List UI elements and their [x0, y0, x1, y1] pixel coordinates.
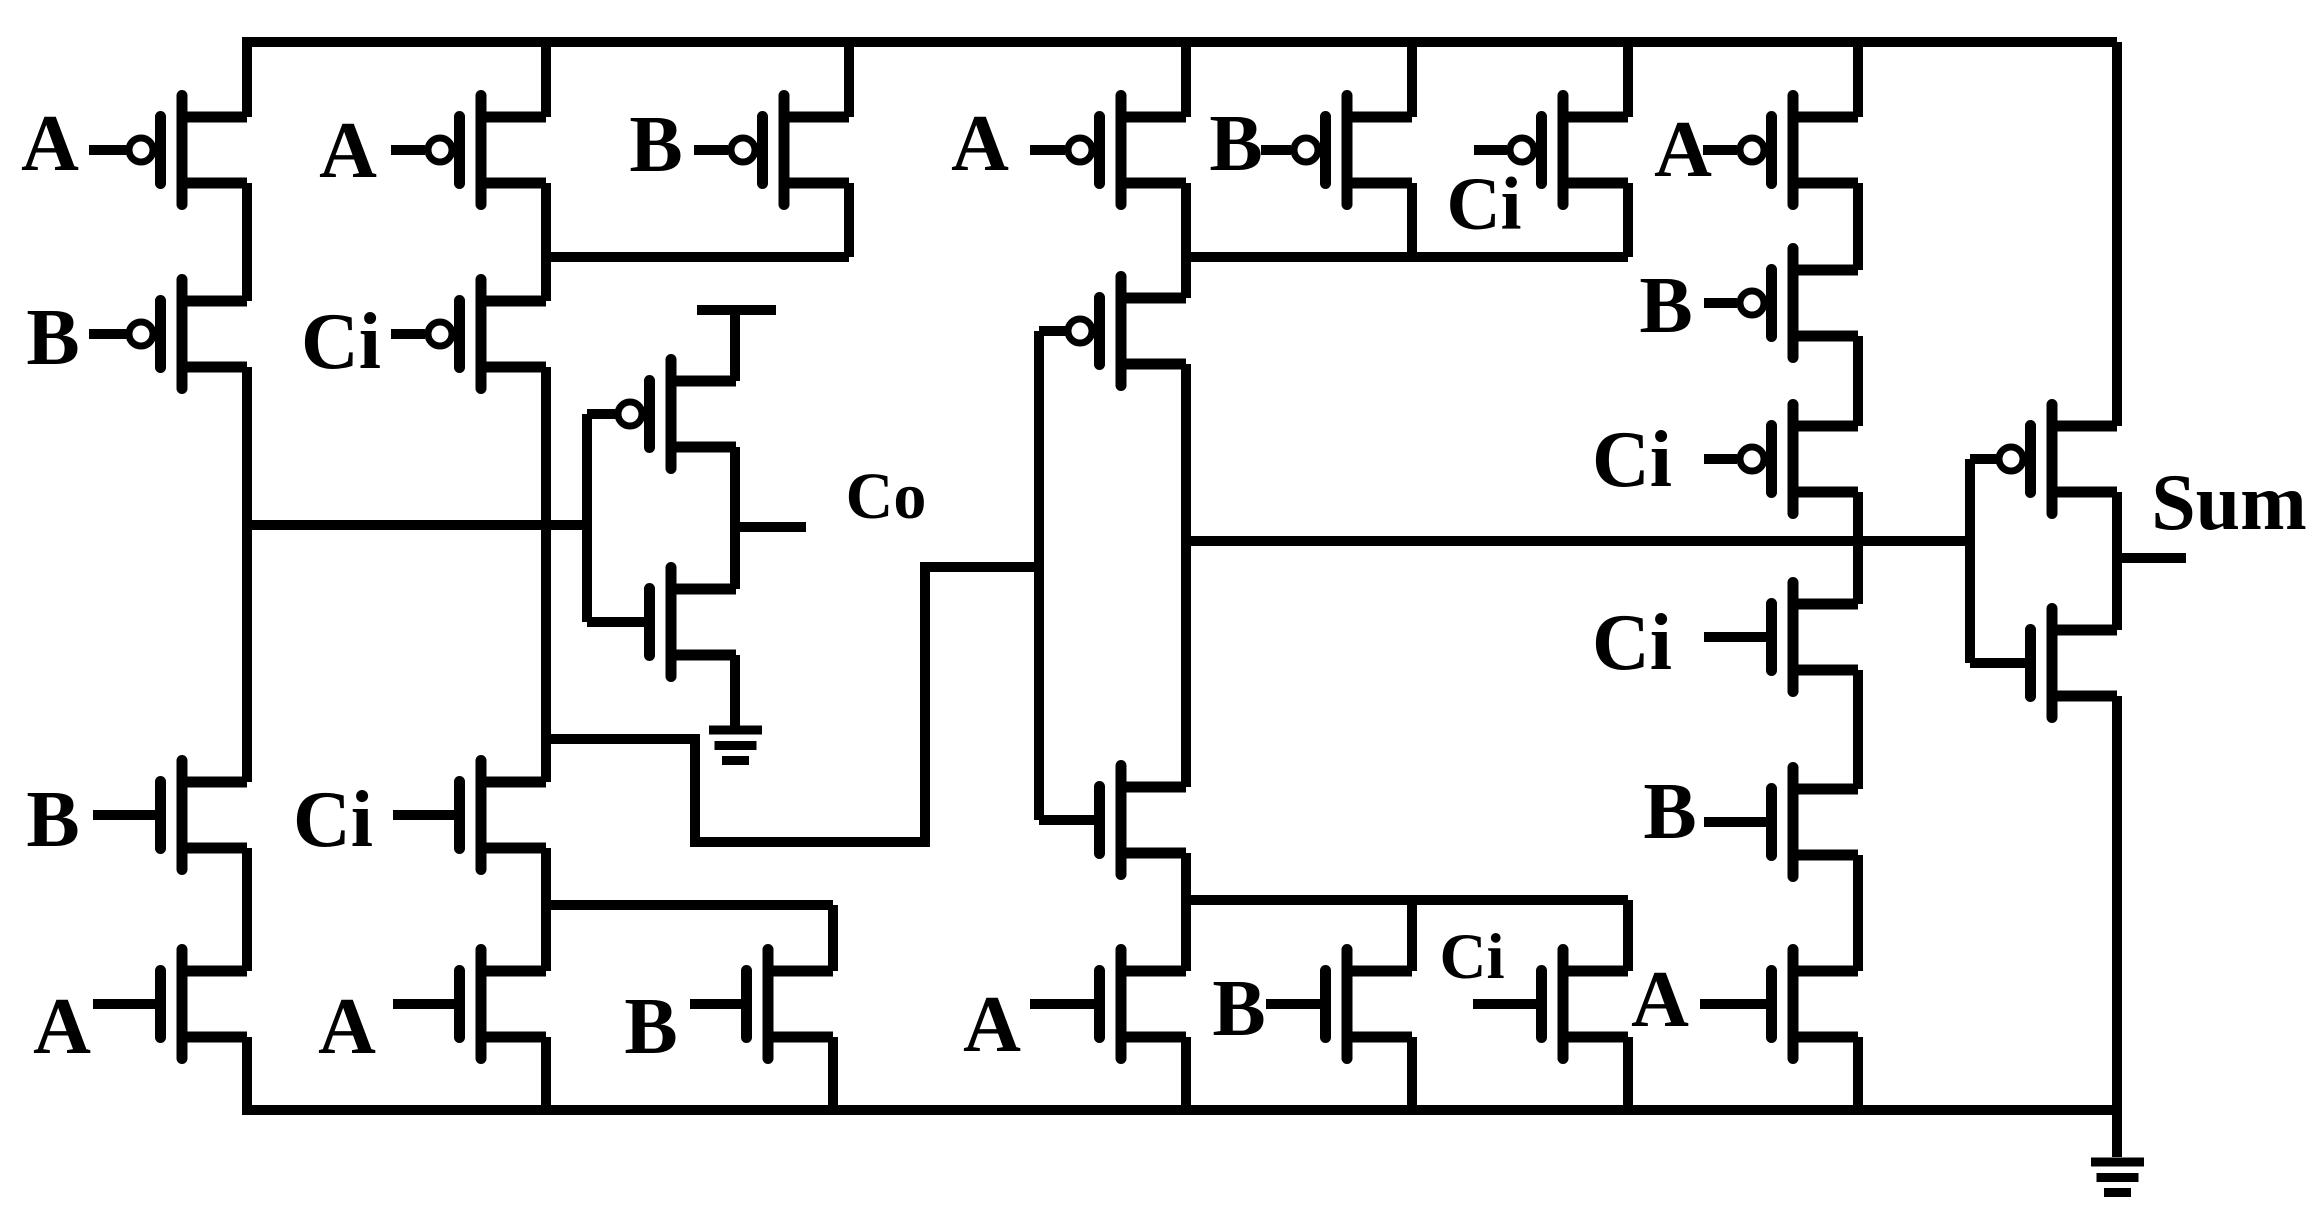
svg-text:B: B: [26, 776, 79, 864]
svg-text:Ci: Ci: [1592, 599, 1672, 687]
svg-text:B: B: [1643, 768, 1696, 856]
svg-text:Ci: Ci: [1447, 163, 1522, 246]
svg-text:A: A: [963, 981, 1021, 1069]
svg-text:A: A: [1631, 956, 1689, 1044]
svg-text:Ci: Ci: [1440, 921, 1505, 993]
svg-text:B: B: [624, 983, 677, 1071]
svg-text:Ci: Ci: [293, 776, 373, 864]
svg-text:A: A: [33, 983, 91, 1071]
svg-text:A: A: [1654, 106, 1712, 194]
svg-text:A: A: [318, 983, 376, 1071]
svg-text:A: A: [21, 100, 79, 188]
svg-text:Ci: Ci: [301, 298, 381, 386]
svg-text:B: B: [1639, 262, 1692, 350]
svg-text:Sum: Sum: [2151, 459, 2307, 547]
svg-text:B: B: [1212, 965, 1265, 1053]
svg-text:A: A: [319, 107, 377, 195]
svg-text:Ci: Ci: [1592, 416, 1672, 504]
svg-text:B: B: [1209, 100, 1262, 188]
svg-text:B: B: [26, 294, 79, 382]
svg-text:B: B: [629, 101, 682, 189]
svg-text:A: A: [951, 100, 1009, 188]
svg-text:Co: Co: [846, 460, 927, 533]
